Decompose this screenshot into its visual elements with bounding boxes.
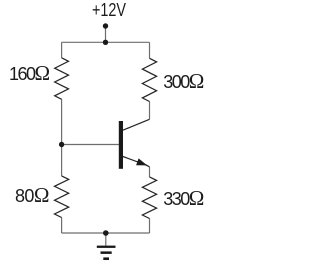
node ground junction dot (103, 230, 109, 236)
wire bottom rail (62, 232, 150, 234)
node supply terminal dot (103, 23, 108, 28)
resistor R4 330ohm (142, 177, 156, 219)
wire +12V stub (105, 26, 107, 42)
wire emitter diagonal (123, 157, 147, 166)
wire collector diagonal (123, 119, 150, 130)
node top rail junction dot (103, 40, 108, 45)
label 80 ohm (15, 185, 49, 206)
wire right rail lower (149, 219, 151, 234)
node base junction dot (59, 142, 64, 147)
wire ground stub (105, 233, 107, 246)
transistor Q1 base bar (119, 121, 123, 169)
wire left rail upper (61, 42, 63, 58)
wire left rail middle (61, 99, 63, 176)
wire left rail lower (61, 218, 63, 234)
resistor R2 300ohm (142, 58, 156, 101)
ground symbol (97, 246, 116, 260)
transistor Q1 emitter arrowhead (136, 158, 147, 165)
wire top rail (62, 41, 150, 43)
wire base (62, 144, 119, 146)
label 160 ohm (9, 63, 50, 84)
resistor R3 80ohm (55, 176, 69, 218)
wire emitter bend (146, 165, 150, 167)
label 300 ohm (163, 71, 204, 92)
resistor R1 160ohm (55, 58, 69, 100)
wire right rail upper (149, 42, 151, 58)
wire collector vertical (149, 102, 151, 120)
label +12V (92, 1, 126, 19)
label 330 ohm (163, 188, 204, 209)
wire emitter corner vertical (149, 167, 151, 177)
